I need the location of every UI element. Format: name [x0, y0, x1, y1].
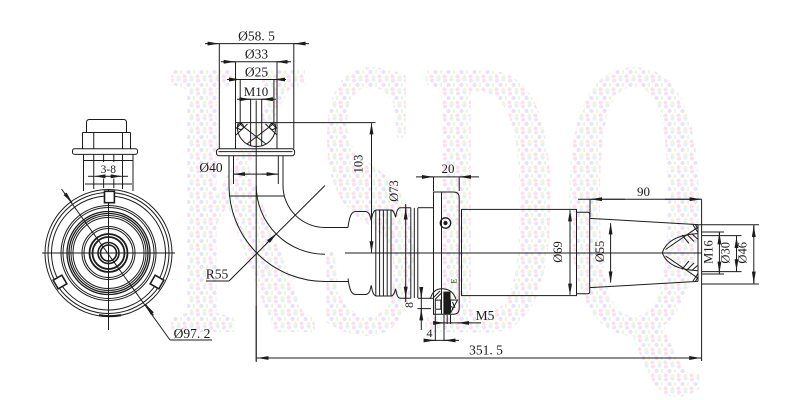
left view left tab	[53, 275, 67, 289]
dimension Ø69 line	[569, 213, 571, 292]
dimension 103 line	[371, 131, 373, 245]
M5 leader arrows	[437, 322, 445, 324]
valve ball bore lines	[250, 123, 252, 146]
dimension M10 line	[237, 98, 276, 100]
svg-text:Ø40: Ø40	[199, 160, 222, 175]
left view bottom tab edge	[99, 315, 121, 316]
dimension 90 arrows	[591, 198, 625, 200]
left view center horizontal line	[42, 252, 175, 254]
dimension 351.5 line	[257, 357, 702, 359]
dimension R55 arrow	[267, 234, 277, 244]
left view concentric circles (flange face)	[45, 190, 172, 317]
nozzle hatch upper	[682, 235, 689, 244]
svg-text:M16: M16	[702, 240, 716, 264]
dimension 3-8 arrows	[94, 175, 108, 177]
svg-text:Ø55: Ø55	[593, 241, 607, 263]
nozzle inner cone lines	[666, 227, 699, 249]
nozzle bullet outline	[662, 234, 698, 271]
nozzle hatch lower	[682, 261, 689, 269]
cone top edge	[590, 218, 698, 224]
svg-text:Ø58. 5: Ø58. 5	[238, 29, 275, 44]
boss left hatch	[434, 291, 441, 298]
axis horizontal centerline	[345, 252, 702, 254]
dimension R55 leader	[229, 186, 325, 282]
left view top flange	[73, 149, 138, 155]
pipe bottom line	[325, 281, 348, 283]
left view center vertical line	[108, 189, 110, 330]
svg-text:Ø30: Ø30	[719, 242, 733, 264]
main cylinder Ø69	[462, 209, 577, 295]
dimension 8 ext tick	[418, 308, 432, 310]
dimension Ø40 arrows	[234, 173, 250, 175]
dimension 8 line	[420, 287, 422, 330]
dimension 351.5 arrows	[257, 357, 290, 359]
svg-text:90: 90	[637, 184, 650, 199]
M5 leader line	[436, 322, 481, 324]
dimension M10 arrows	[239, 98, 251, 100]
elbow inner arc	[283, 186, 325, 228]
collar inner line	[441, 192, 443, 314]
dimension Ø30 ext lines	[702, 235, 742, 237]
dimension 4 line	[425, 339, 459, 341]
dimension M16 line	[718, 232, 720, 274]
svg-text:Ø46: Ø46	[736, 242, 750, 264]
axis vertical centerline	[255, 101, 257, 362]
svg-text:3-8: 3-8	[101, 164, 117, 176]
svg-text:4: 4	[427, 326, 433, 340]
svg-text:8: 8	[402, 302, 416, 308]
dimension Ø97.2 arrows	[64, 193, 72, 203]
M5 screw black	[443, 292, 450, 315]
dimension 3-8 label	[99, 164, 119, 175]
svg-text:Ø97. 2: Ø97. 2	[174, 326, 211, 341]
left view cap nut	[87, 120, 127, 133]
dimension Ø33 line	[221, 61, 291, 63]
boss small rect	[435, 300, 441, 309]
valve housing top line	[236, 122, 278, 124]
dimension M10 ext lines	[250, 99, 252, 122]
svg-text:20: 20	[442, 161, 455, 176]
valve ball hatch X	[241, 125, 267, 145]
dimension Ø30 line	[736, 236, 738, 272]
svg-text:351. 5: 351. 5	[469, 343, 503, 358]
boss dome arc	[430, 289, 455, 299]
dimension Ø46 line	[753, 225, 755, 284]
valve ball corner curls	[238, 124, 244, 130]
dimension Ø25 ext lines	[239, 80, 241, 123]
svg-text:Ø33: Ø33	[245, 47, 268, 62]
dimension Ø73 line	[405, 204, 407, 302]
dimension Ø25 arrows	[229, 79, 240, 81]
set screw circle	[440, 218, 450, 228]
step ring	[576, 209, 578, 295]
dimension 8 arrows	[420, 290, 422, 298]
svg-text:R55: R55	[206, 267, 229, 282]
neck outer walls	[228, 156, 230, 186]
dimension Ø58.5 line	[205, 43, 309, 45]
bellows bottom profile	[348, 279, 411, 299]
hub top and bottom lines	[418, 207, 434, 209]
elbow outer arc	[229, 186, 325, 282]
dimension M16 ext lines	[702, 231, 724, 233]
svg-text:E: E	[450, 278, 459, 283]
dimension 20 ext lines	[433, 177, 435, 191]
left view top tab	[105, 191, 115, 202]
dimension 20 arrows	[421, 176, 433, 178]
svg-text:Ø25: Ø25	[245, 64, 268, 79]
left extension of 351.5	[255, 306, 257, 362]
left view neck shoulder lines	[84, 160, 134, 162]
collar body	[434, 192, 460, 314]
svg-text:M10: M10	[244, 84, 269, 99]
dimension 20 line	[416, 176, 479, 178]
elbow centerline arc R55	[256, 186, 325, 255]
pipe top line	[325, 227, 348, 229]
bellows top profile	[348, 208, 411, 228]
svg-text:Ø69: Ø69	[551, 241, 565, 263]
dimension Ø58.5 arrows	[207, 43, 219, 45]
left view neck outer walls	[83, 154, 85, 191]
dimension Ø33 ext lines	[235, 62, 237, 123]
svg-text:M5: M5	[476, 308, 495, 323]
dimension Ø46 ext lines	[695, 224, 759, 226]
left view cap body	[82, 133, 84, 149]
elbow weld seam	[230, 195, 285, 197]
nozzle face corner notches	[693, 225, 698, 233]
dimension Ø33 arrows	[223, 61, 235, 63]
svg-text:103: 103	[352, 155, 366, 174]
dimension Ø25 line	[227, 79, 286, 81]
boss hatch wedge	[451, 300, 458, 313]
nozzle tip extension line	[701, 199, 703, 361]
svg-text:Ø73: Ø73	[387, 180, 401, 202]
dimension Ø55 line	[610, 226, 612, 280]
bellows end rings	[410, 208, 412, 299]
valve housing walls	[235, 123, 237, 149]
watermark KSDQ halftone letters	[168, 0, 708, 400]
dimension 90 ext line	[589, 199, 591, 217]
dimension 4 arrows	[426, 339, 435, 341]
screw extension lines	[443, 315, 445, 341]
cone face	[697, 225, 699, 282]
dimension Ø58.5 ext lines	[218, 44, 220, 149]
dimension 90 line	[578, 198, 702, 200]
top flange (Ø58.5)	[217, 149, 295, 156]
left view neck inner walls	[93, 154, 95, 189]
valve ball	[238, 123, 276, 146]
dimension Ø97.2 leader line	[62, 189, 171, 340]
cone bottom edge	[590, 281, 698, 287]
reference line to 103 dim	[277, 122, 376, 124]
bellows ribs	[375, 210, 377, 295]
left view right tab	[150, 275, 164, 289]
neck inner walls	[233, 156, 235, 184]
